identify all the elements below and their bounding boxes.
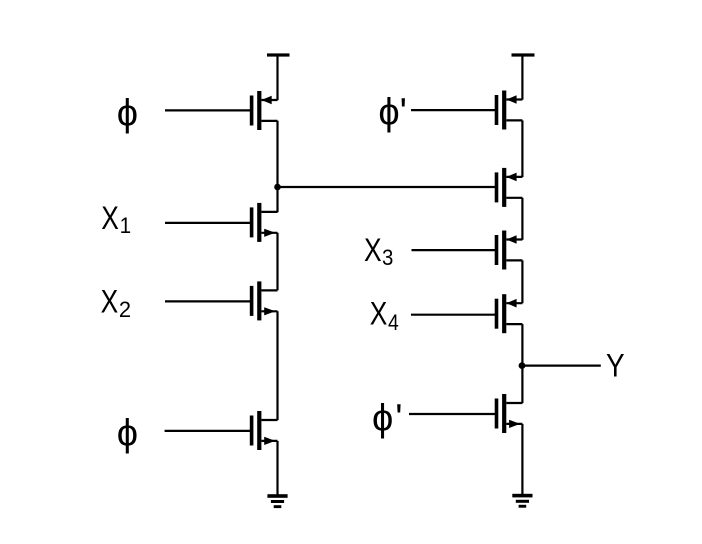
wire VDD to M1 source <box>276 56 278 100</box>
transistor M6 (PMOS, gate from node A) <box>495 168 523 207</box>
ground symbol (left) <box>267 494 287 508</box>
wire M1 drain to node A / M2 drain <box>276 121 278 212</box>
wire VDD to M5 source <box>521 56 523 100</box>
transistor M9 (NMOS, gate phi-bar, right footer) <box>495 394 523 433</box>
svg-text:ϕ: ϕ <box>117 92 138 134</box>
svg-text:ϕ: ϕ <box>117 412 138 454</box>
svg-text:4: 4 <box>388 310 399 335</box>
VDD supply bar (right) <box>512 53 535 56</box>
svg-text:ϕ': ϕ' <box>372 397 403 439</box>
ground symbol (right) <box>512 494 532 508</box>
wire M7 drain to M8 source <box>521 260 523 303</box>
wire gate of M3 <box>165 300 251 302</box>
svg-text:3: 3 <box>382 245 393 270</box>
wire M4 source to ground <box>276 441 278 495</box>
VDD supply bar (left) <box>267 53 290 56</box>
wire gate of M2 <box>165 222 251 224</box>
wire gate of M1 <box>165 109 251 111</box>
transistor M5 (PMOS, gate phi-bar, right precharge) <box>495 91 523 130</box>
svg-text:ϕ': ϕ' <box>378 91 407 133</box>
transistor M2 (NMOS, gate X1) <box>250 203 278 242</box>
wire gate of M9 <box>409 413 496 415</box>
transistor M1 (PMOS, gate phi, left precharge) <box>250 91 278 130</box>
transistor M4 (NMOS, gate phi, left footer) <box>250 411 278 450</box>
transistor M8 (PMOS, gate X4) <box>495 294 523 333</box>
wire M6 drain to M7 source <box>521 198 523 240</box>
wire M5 drain to M6 source <box>521 120 523 177</box>
svg-text:2: 2 <box>119 297 131 322</box>
svg-text:Y: Y <box>606 348 625 384</box>
wire gate of M5 <box>411 109 496 111</box>
node Y junction dot <box>519 362 526 369</box>
wire node A to gate of M6 <box>278 186 497 188</box>
wire gate of M8 <box>411 314 496 316</box>
wire M8 drain to node Y / M9 drain <box>521 324 523 403</box>
svg-text:X: X <box>370 295 388 332</box>
wire node Y to output <box>522 365 600 367</box>
transistor M3 (NMOS, gate X2) <box>250 281 278 320</box>
wire gate of M4 <box>165 430 252 432</box>
svg-text:X: X <box>364 231 382 268</box>
wire M9 source to ground <box>521 424 523 495</box>
svg-text:1: 1 <box>120 213 132 238</box>
svg-text:X: X <box>101 283 119 320</box>
node A junction dot <box>274 184 281 191</box>
svg-text:X: X <box>101 199 119 236</box>
wire M2 source to M3 drain <box>276 233 278 290</box>
wire M3 source to M4 drain <box>276 311 278 420</box>
transistor M7 (PMOS, gate X3) <box>495 231 523 270</box>
wire gate of M7 <box>412 249 497 251</box>
